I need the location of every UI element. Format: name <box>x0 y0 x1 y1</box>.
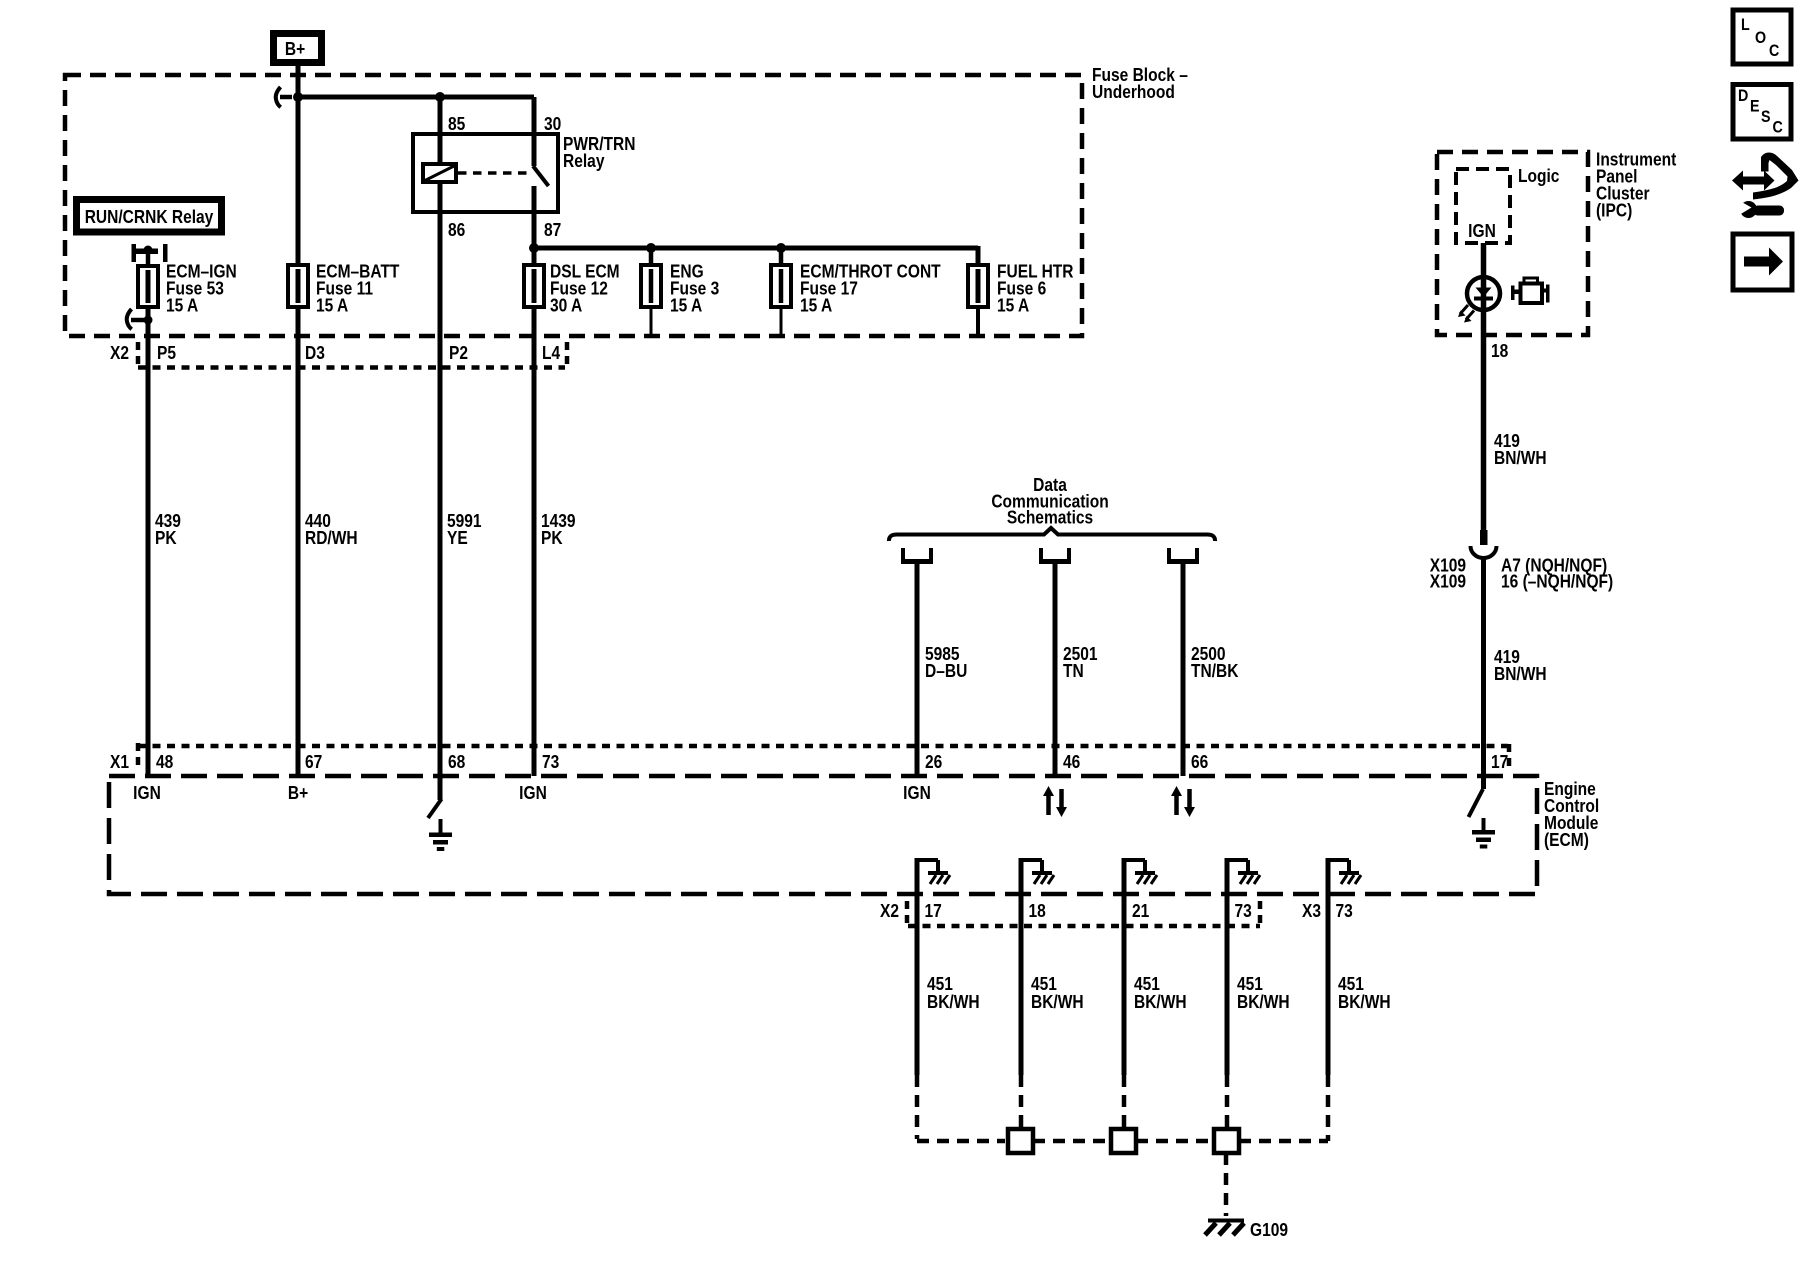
wire CAN high to ECM <box>1053 561 1058 776</box>
fuse F12 value label <box>550 261 620 316</box>
svg-text:E: E <box>1750 97 1760 115</box>
connector X1 left tick <box>136 743 141 770</box>
label Fuse Block - Underhood <box>1092 65 1188 103</box>
indicator lamp LED <box>1467 277 1500 310</box>
wire B+ to fuse 11 <box>296 66 301 265</box>
svg-text:17: 17 <box>1491 752 1508 773</box>
svg-text:46: 46 <box>1063 752 1080 773</box>
pin 85 label <box>448 114 466 135</box>
connector X109 pin labels <box>1501 555 1613 592</box>
junction dot at ENG fuse <box>646 243 656 253</box>
dashed wire to splice from pin 18 <box>1019 1075 1024 1128</box>
svg-text:BK/WH: BK/WH <box>1338 992 1391 1013</box>
svg-text:73: 73 <box>542 752 559 773</box>
wire to relay pin 30 <box>532 97 537 166</box>
wire label 419 BN/WH upper <box>1494 431 1547 469</box>
label Engine Control Module (ECM) <box>1544 779 1599 851</box>
svg-text:G109: G109 <box>1250 1220 1288 1241</box>
fuse F17 value label <box>800 261 941 316</box>
svg-text:Schematics: Schematics <box>1007 507 1093 528</box>
wire label 451 BK/WH #5 <box>1338 974 1391 1013</box>
pin 26 label <box>925 752 942 773</box>
switch to ground at pin 68 <box>428 799 442 818</box>
dashed ground bus left segment <box>917 1139 1005 1144</box>
svg-text:X3: X3 <box>1302 901 1321 922</box>
svg-text:P5: P5 <box>157 343 176 364</box>
wire to relay pin 85 <box>438 97 443 164</box>
svg-text:85: 85 <box>448 114 466 135</box>
svg-text:RD/WH: RD/WH <box>305 528 358 549</box>
svg-text:D3: D3 <box>305 343 325 364</box>
svg-text:15 A: 15 A <box>800 295 832 316</box>
svg-text:48: 48 <box>156 752 173 773</box>
wire 451 BK/WH #2 <box>1019 858 1024 1075</box>
svg-text:17: 17 <box>925 901 942 922</box>
wire CAN low to ECM <box>1181 561 1186 776</box>
svg-text:26: 26 <box>925 752 942 773</box>
svg-text:BK/WH: BK/WH <box>1237 992 1290 1013</box>
node IGN at pin 26 <box>903 783 931 804</box>
fuse F6 FUEL HTR <box>968 265 988 307</box>
splice S1 <box>1008 1129 1033 1153</box>
wire label 451 BK/WH #1 <box>927 974 980 1013</box>
svg-text:L4: L4 <box>542 343 561 364</box>
chassis ground branch 3 in ECM <box>1124 860 1157 884</box>
svg-text:TN/BK: TN/BK <box>1191 661 1239 682</box>
svg-text:S: S <box>1761 108 1771 126</box>
fuse F3 ENG <box>641 265 661 307</box>
wire label 5991 YE <box>447 511 482 549</box>
pin P5 label <box>157 343 176 364</box>
wire DSL ECM fuse / circuit 1439 <box>532 248 537 776</box>
connector X2 bottom dotted line <box>908 924 1260 929</box>
svg-text:IGN: IGN <box>1468 221 1496 242</box>
icon DESC <box>1733 85 1791 140</box>
junction dot at ECM/THROT fuse <box>776 243 786 253</box>
pin 73 label <box>542 752 559 773</box>
svg-text:B+: B+ <box>285 39 305 60</box>
connector X2 bottom label <box>880 901 899 922</box>
pin 48 label <box>156 752 173 773</box>
svg-text:BN/WH: BN/WH <box>1494 448 1547 469</box>
label G109 <box>1250 1220 1288 1241</box>
dashed wire to splice from pin 17 <box>915 1075 920 1139</box>
wire label 419 BN/WH lower <box>1494 647 1547 685</box>
svg-text:X1: X1 <box>110 752 129 773</box>
fuse F12 DSL ECM <box>524 265 544 307</box>
svg-text:87: 87 <box>544 220 561 241</box>
svg-text:X2: X2 <box>880 901 899 922</box>
wire to ENG fuse <box>649 248 654 336</box>
svg-text:15 A: 15 A <box>316 295 348 316</box>
wire label 439 PK <box>155 511 181 549</box>
svg-text:21: 21 <box>1132 901 1150 922</box>
off-page connector bracket serial data <box>901 548 933 562</box>
wire label 2501 TN <box>1063 644 1098 682</box>
dashed wire to splice from pin 73 X2 <box>1225 1075 1230 1128</box>
pin 66 label <box>1191 752 1208 773</box>
wire 451 BK/WH #4 <box>1225 858 1230 1075</box>
wire fuse 53 to ECM / circuit 439 <box>146 266 151 776</box>
svg-text:30 A: 30 A <box>550 295 582 316</box>
fuse F6 value label <box>997 261 1074 316</box>
bidirectional data arrows at pin 46 <box>1043 786 1067 817</box>
svg-text:BN/WH: BN/WH <box>1494 664 1547 685</box>
wire to ECM/THROT fuse <box>779 248 784 336</box>
svg-text:IGN: IGN <box>903 783 931 804</box>
LED emission arrows <box>1458 305 1474 323</box>
svg-text:15 A: 15 A <box>997 295 1029 316</box>
fuse block - underhood dashed box <box>65 75 1082 336</box>
svg-text:C: C <box>1769 42 1779 60</box>
connector X2 bottom left tick <box>905 901 910 923</box>
node B+ at pin 67 <box>288 783 308 804</box>
pin 46 label <box>1063 752 1080 773</box>
connector X2 right tick <box>565 342 570 366</box>
chassis ground branch 2 in ECM <box>1021 860 1054 884</box>
wire fuse 11 to ECM / circuit 440 <box>296 307 301 776</box>
svg-text:BK/WH: BK/WH <box>1031 992 1084 1013</box>
pin P2 label <box>449 343 468 364</box>
svg-text:O: O <box>1755 29 1766 47</box>
svg-text:67: 67 <box>305 752 322 773</box>
pin 73 X3 label <box>1336 901 1353 922</box>
off-page hook below fuse 53 <box>127 309 153 329</box>
svg-text:(IPC): (IPC) <box>1596 200 1632 221</box>
wire relay pin 87 <box>532 186 537 248</box>
label PWR/TRN Relay <box>563 134 635 172</box>
fuse F3 value label <box>670 261 719 316</box>
svg-text:18: 18 <box>1491 341 1508 362</box>
connector X3 label <box>1302 901 1321 922</box>
connector X109 labels <box>1430 555 1466 592</box>
wire to FUEL HTR fuse <box>976 246 981 336</box>
fuse F11 ECM-BATT <box>288 265 308 307</box>
off-page connector bracket CAN high <box>1039 548 1071 562</box>
wire 451 BK/WH #5 <box>1326 858 1331 1075</box>
pin 87 label <box>544 220 561 241</box>
instrument panel cluster dashed box <box>1437 152 1588 335</box>
bidirectional data arrows at pin 66 <box>1171 786 1195 817</box>
svg-text:68: 68 <box>448 752 465 773</box>
label Logic <box>1518 166 1559 187</box>
node IGN at pin 48 <box>133 783 161 804</box>
svg-text:P2: P2 <box>449 343 468 364</box>
dashed ground bus segment 4 <box>1239 1139 1328 1144</box>
label IGN logic output <box>1468 221 1496 242</box>
wire label 5985 D-BU <box>925 644 967 682</box>
dashed ground bus segment 2 <box>1033 1139 1111 1144</box>
wire 451 BK/WH #1 <box>915 858 920 1075</box>
icon harness routing with wrench <box>1732 153 1799 219</box>
wire label 451 BK/WH #3 <box>1134 974 1187 1013</box>
RUN/CRNK Relay label box <box>73 196 225 236</box>
svg-text:(ECM): (ECM) <box>1544 830 1589 851</box>
connector X1 label <box>110 752 129 773</box>
svg-text:C: C <box>1773 118 1783 136</box>
ground symbol at pin 17 <box>1472 818 1495 849</box>
svg-text:Logic: Logic <box>1518 166 1559 187</box>
pin D3 label <box>305 343 325 364</box>
chassis ground branch 4 in ECM <box>1227 860 1260 884</box>
off-page hook at B+ feed <box>276 87 292 107</box>
fuse F11 value label <box>316 261 400 316</box>
connector X2 label <box>110 343 129 364</box>
pin 21 bottom label <box>1132 901 1150 922</box>
in-line connector X109 <box>1471 530 1497 558</box>
fuse F17 ECM/THROT CONT <box>771 265 791 307</box>
connector X2 left tick <box>136 342 141 366</box>
wire fuse feed bus <box>534 246 978 251</box>
relay contact feed symbol <box>132 244 168 266</box>
wire B+ feed to relay <box>296 95 534 100</box>
svg-text:18: 18 <box>1029 901 1046 922</box>
pin 68 label <box>448 752 465 773</box>
label Instrument Panel Cluster (IPC) <box>1596 149 1677 221</box>
relay coil <box>423 164 456 182</box>
wire label 451 BK/WH #4 <box>1237 974 1290 1013</box>
splice S2 <box>1111 1129 1136 1153</box>
wire label 2500 TN/BK <box>1191 644 1239 682</box>
svg-text:86: 86 <box>448 220 465 241</box>
pin L4 label <box>542 343 561 364</box>
relay switch blade <box>533 166 549 186</box>
junction dot fuse feed at DSL ECM <box>529 243 539 253</box>
svg-text:IGN: IGN <box>133 783 161 804</box>
wire IPC pin 18 / circuit 419 <box>1481 243 1487 531</box>
pin 30 label <box>544 114 561 135</box>
svg-text:IGN: IGN <box>519 783 547 804</box>
fuse F53 value label <box>166 261 237 316</box>
wire label 1439 PK <box>541 511 576 549</box>
pin 18 label <box>1491 341 1508 362</box>
wire label 440 RD/WH <box>305 511 358 549</box>
svg-text:YE: YE <box>447 528 468 549</box>
pin 17 bottom label <box>925 901 942 922</box>
off-page connector bracket CAN low <box>1167 548 1199 562</box>
svg-text:Relay: Relay <box>563 151 605 172</box>
connector X2 dotted line <box>138 365 565 370</box>
wire X109 to ECM pin 17 <box>1481 556 1486 789</box>
dashed wire to splice from pin 21 <box>1122 1075 1127 1128</box>
svg-text:D: D <box>1738 87 1748 105</box>
svg-text:L: L <box>1741 16 1750 34</box>
svg-text:73: 73 <box>1235 901 1252 922</box>
svg-text:PK: PK <box>541 528 563 549</box>
ground G109 symbol <box>1205 1219 1244 1236</box>
engine control module dashed box <box>109 776 1537 894</box>
dashed wire from pin 73 X3 <box>1326 1075 1331 1141</box>
chassis ground branch 1 in ECM <box>917 860 950 884</box>
svg-text:BK/WH: BK/WH <box>927 992 980 1013</box>
logic box dashed <box>1456 169 1510 243</box>
svg-text:RUN/CRNK Relay: RUN/CRNK Relay <box>85 207 214 228</box>
brace data communication <box>889 528 1215 541</box>
svg-text:X109: X109 <box>1430 571 1466 592</box>
svg-text:66: 66 <box>1191 752 1208 773</box>
splice S3 <box>1214 1129 1239 1153</box>
svg-text:16 (–NQH/NQF): 16 (–NQH/NQF) <box>1501 571 1613 592</box>
node IGN at pin 73 <box>519 783 547 804</box>
power node B+ <box>270 30 325 66</box>
pin 67 label <box>305 752 322 773</box>
check engine icon <box>1511 278 1550 303</box>
junction dot relay coil tap <box>435 92 445 102</box>
connector X1 right tick <box>1507 744 1512 770</box>
svg-text:30: 30 <box>544 114 561 135</box>
icon LOC <box>1733 10 1791 64</box>
icon forward arrow <box>1733 234 1792 290</box>
junction dot B+ feed <box>293 92 303 102</box>
ground symbol at pin 68 <box>429 819 452 851</box>
svg-text:B+: B+ <box>288 783 308 804</box>
label Data Communication Schematics <box>991 475 1108 528</box>
wire relay pin 86 / circuit 5991 <box>438 182 443 800</box>
relay actuation dashed link <box>458 171 531 175</box>
svg-text:D–BU: D–BU <box>925 661 967 682</box>
connector X1 dotted line <box>138 744 1508 749</box>
relay K1 PWR/TRN box <box>413 134 558 212</box>
dashed wire splice S3 to ground G109 <box>1224 1153 1229 1216</box>
pin 18 bottom label <box>1029 901 1046 922</box>
svg-text:15 A: 15 A <box>670 295 702 316</box>
wire 451 BK/WH #3 <box>1122 858 1127 1075</box>
pin 86 label <box>448 220 465 241</box>
chassis ground branch 5 in ECM <box>1328 860 1361 884</box>
svg-text:TN: TN <box>1063 661 1084 682</box>
svg-text:BK/WH: BK/WH <box>1134 992 1187 1013</box>
svg-text:PK: PK <box>155 528 177 549</box>
svg-text:X2: X2 <box>110 343 129 364</box>
switch to ground at pin 17 <box>1469 789 1484 817</box>
dashed ground bus segment 3 <box>1136 1139 1214 1144</box>
svg-text:73: 73 <box>1336 901 1353 922</box>
pin 17 label <box>1491 752 1508 773</box>
connector X2 bottom right tick <box>1258 901 1263 923</box>
svg-text:Underhood: Underhood <box>1092 82 1175 103</box>
pin 73 bottom label <box>1235 901 1252 922</box>
wire label 451 BK/WH #2 <box>1031 974 1084 1013</box>
svg-text:15 A: 15 A <box>166 295 198 316</box>
wire serial data to ECM <box>915 561 920 776</box>
fuse F53 ECM-IGN <box>138 266 158 307</box>
